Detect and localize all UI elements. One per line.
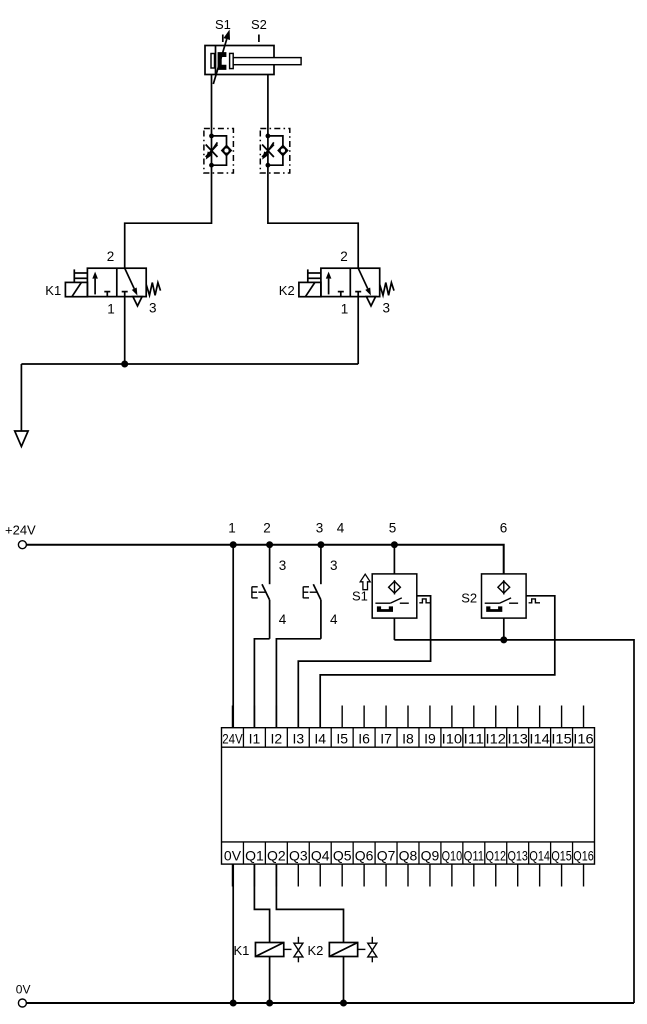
svg-text:3: 3	[382, 301, 390, 316]
svg-text:I5: I5	[336, 730, 348, 746]
svg-text:1: 1	[341, 302, 349, 317]
svg-text:Q2: Q2	[267, 847, 286, 863]
wire cylinder left port to flow valve V1	[211, 75, 213, 136]
svg-text:Q10: Q10	[442, 847, 463, 863]
wire V1 to valve K1 port 2	[125, 165, 212, 268]
svg-text:5: 5	[389, 521, 397, 536]
svg-text:3: 3	[330, 558, 338, 573]
wire V2 to valve K2 port 2	[268, 165, 358, 268]
proximity sensor S2	[482, 574, 527, 618]
junction S2 common	[500, 636, 507, 643]
PLC block with input terminals 24V I1-I16 and output terminals 0V Q1-Q16	[222, 706, 595, 887]
svg-text:Q16: Q16	[573, 847, 594, 863]
S2 pulse output symbol	[529, 599, 540, 603]
wire PLC 0V to 0V rail	[232, 864, 234, 1003]
svg-text:Q1: Q1	[245, 847, 264, 863]
supply line	[21, 363, 358, 365]
cylinder	[205, 46, 301, 75]
svg-text:Q6: Q6	[355, 847, 374, 863]
svg-text:I14: I14	[529, 730, 550, 746]
svg-text:Q3: Q3	[289, 847, 308, 863]
svg-text:3: 3	[149, 301, 157, 316]
svg-text:2: 2	[107, 249, 115, 264]
svg-text:Q12: Q12	[486, 847, 507, 863]
sensor tick S2	[258, 35, 260, 43]
pushbutton PB1 (NO contact)	[252, 545, 270, 639]
wire PB2 to PLC I2	[276, 639, 321, 728]
actuation arrow S1	[360, 574, 370, 590]
svg-text:S2: S2	[251, 17, 267, 32]
svg-text:3: 3	[316, 521, 324, 536]
svg-text:Q15: Q15	[551, 847, 572, 863]
junction rail PB2	[317, 541, 324, 548]
svg-text:Q11: Q11	[464, 847, 485, 863]
wire cylinder right port to flow valve V2	[267, 75, 269, 136]
svg-text:4: 4	[337, 521, 345, 536]
wire K2 port 1 to supply line	[357, 297, 359, 364]
svg-text:I13: I13	[507, 730, 528, 746]
flow control valve V2	[260, 129, 290, 174]
svg-text:I9: I9	[424, 730, 436, 746]
svg-text:I7: I7	[380, 730, 392, 746]
wire col1 to PLC 24V	[232, 545, 234, 728]
svg-text:+24V: +24V	[5, 523, 36, 538]
+24V terminal	[18, 541, 26, 549]
junction rail col1	[230, 541, 237, 548]
junction supply	[121, 361, 128, 368]
wire K1 port 1 to supply line	[124, 297, 126, 364]
exhaust/source triangle	[15, 431, 28, 447]
svg-text:4: 4	[279, 612, 287, 627]
0V rail	[26, 1002, 634, 1004]
svg-text:S1: S1	[352, 588, 368, 603]
svg-text:Q8: Q8	[399, 847, 418, 863]
svg-text:1: 1	[107, 302, 115, 317]
S1 pulse output symbol	[419, 599, 430, 603]
svg-text:Q7: Q7	[377, 847, 396, 863]
proximity sensor S1	[372, 574, 417, 618]
relay coil K1 (valve solenoid)	[254, 864, 303, 1003]
svg-text:I4: I4	[314, 730, 326, 746]
svg-text:24V: 24V	[222, 730, 243, 746]
svg-text:S1: S1	[215, 17, 231, 32]
svg-text:Q4: Q4	[311, 847, 330, 863]
valve K1 (3/2-way solenoid valve)	[65, 268, 160, 306]
svg-text:I1: I1	[249, 730, 261, 746]
wire rail to S1	[393, 545, 395, 574]
svg-text:I2: I2	[271, 730, 283, 746]
wire S2 bottom	[503, 618, 505, 640]
svg-text:4: 4	[330, 612, 338, 627]
svg-text:6: 6	[500, 521, 508, 536]
svg-text:0V: 0V	[224, 847, 242, 863]
svg-text:Q14: Q14	[529, 847, 550, 863]
wire supply down	[20, 364, 22, 431]
svg-text:K2: K2	[308, 943, 324, 958]
svg-text:Q13: Q13	[507, 847, 528, 863]
svg-text:S2: S2	[461, 590, 477, 605]
svg-text:I8: I8	[402, 730, 414, 746]
svg-text:I15: I15	[551, 730, 572, 746]
junction 0V K1	[266, 1000, 273, 1007]
svg-text:K2: K2	[279, 283, 295, 298]
junction rail PB1	[266, 541, 273, 548]
svg-text:Q9: Q9	[421, 847, 440, 863]
junction 0V K2	[340, 1000, 347, 1007]
sensor tick S1	[222, 35, 224, 43]
+24V rail	[26, 545, 503, 574]
wire S1 bottom	[393, 618, 395, 640]
sensors common wire to 0V	[394, 640, 634, 1003]
svg-text:I16: I16	[573, 730, 594, 746]
flow control valve V1	[204, 129, 234, 174]
svg-text:0V: 0V	[16, 983, 31, 997]
svg-text:I3: I3	[292, 730, 304, 746]
0V terminal	[18, 999, 26, 1007]
svg-text:I12: I12	[486, 730, 507, 746]
relay coil K2 (valve solenoid)	[276, 864, 376, 1003]
wire PB1 to PLC I1	[254, 639, 269, 728]
junction rail S1	[391, 541, 398, 548]
svg-text:I10: I10	[442, 730, 463, 746]
svg-text:2: 2	[263, 521, 271, 536]
pushbutton PB2 (NO contact)	[303, 545, 321, 639]
svg-text:3: 3	[279, 558, 287, 573]
svg-text:I6: I6	[358, 730, 370, 746]
svg-text:Q5: Q5	[333, 847, 352, 863]
svg-text:K1: K1	[234, 943, 250, 958]
piston position arrow	[213, 30, 230, 85]
junction 0V PLC	[230, 1000, 237, 1007]
wire S1 output to PLC I3	[298, 596, 430, 728]
wire S2 output to PLC I4	[320, 596, 555, 728]
svg-text:1: 1	[228, 521, 236, 536]
svg-text:2: 2	[340, 249, 348, 264]
valve K2 (3/2-way solenoid valve)	[299, 268, 394, 306]
svg-text:K1: K1	[45, 283, 61, 298]
svg-text:I11: I11	[464, 730, 485, 746]
